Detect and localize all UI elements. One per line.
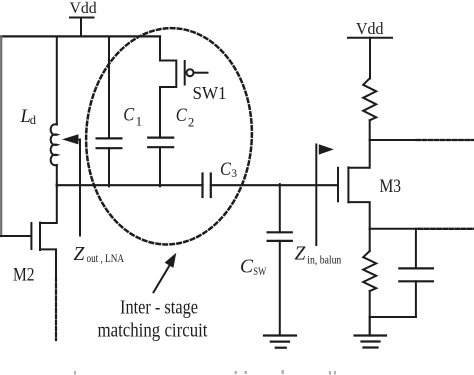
transistor M2 drain lead [40, 184, 57, 223]
ground (under source resistor) [355, 317, 387, 348]
wire: main top rail [1, 35, 160, 37]
wire: source node solid [370, 228, 419, 230]
svg-text:Z: Z [295, 243, 306, 264]
wire: bottom node horizontal [370, 316, 416, 318]
wire: SW1 branch with jogs (channel bar of SW1) [160, 37, 176, 138]
wire: Csw bottom to ground [279, 241, 281, 336]
svg-text:M3: M3 [380, 176, 402, 197]
wire: drop to inductor Ld [56, 37, 58, 125]
svg-text:Vdd: Vdd [356, 19, 384, 38]
wire: Csw branch top [279, 184, 281, 232]
svg-text:3: 3 [231, 168, 237, 180]
wire: C1 bottom to node [108, 148, 110, 186]
svg-text:Vdd: Vdd [70, 0, 97, 17]
resistor (source degeneration) [363, 251, 376, 291]
wire: drain node solid [370, 139, 417, 141]
svg-text:2: 2 [188, 115, 194, 129]
resistor (drain load) [363, 78, 376, 120]
wire: C2 bottom to node [159, 147, 161, 186]
wire: output node horizontal (left of C3) [57, 184, 203, 186]
transistor M3 source lead [348, 202, 369, 229]
transistor M2 gate bar [30, 223, 32, 249]
arrowhead: Zin probe (points right) [319, 144, 334, 154]
arrowhead: Zout probe (points left) [62, 134, 78, 144]
annotation arrow to ellipse [154, 266, 170, 293]
capacitor (source bypass) [399, 268, 433, 281]
wire: Zout probe line [79, 140, 81, 236]
svg-text:matching circuit: matching circuit [98, 319, 208, 341]
transistor M3 drain lead [348, 140, 369, 168]
svg-text:out , LNA: out , LNA [87, 253, 125, 265]
wire: resistor bottom [369, 291, 371, 317]
svg-text:SW: SW [253, 266, 266, 278]
capacitor C3 (series) [203, 174, 211, 198]
svg-text:M2: M2 [13, 265, 35, 286]
transistor M3 gate bar [337, 168, 339, 202]
wire: drain node dashed to edge [417, 139, 474, 141]
wire: bypass cap bottom [415, 281, 417, 317]
capacitor C1 [97, 138, 122, 148]
transistor M2 gate lead [1, 235, 32, 237]
transistor M3 channel bar [347, 167, 349, 202]
wire: node horizontal (right of C3) [211, 184, 337, 186]
svg-text:C: C [176, 106, 188, 126]
transistor SW1 bubble [187, 69, 194, 76]
svg-text:Inter - stage: Inter - stage [120, 297, 198, 319]
Vdd supply symbol (left) [70, 18, 94, 37]
wire: left vertical rail [0, 37, 2, 237]
wire: Zin probe line [315, 145, 317, 246]
svg-text:Z: Z [74, 244, 85, 265]
capacitor C2 [148, 138, 173, 148]
svg-text:1: 1 [136, 115, 142, 129]
svg-text:SW1: SW1 [193, 83, 227, 103]
wire: source to resistor [369, 229, 371, 251]
wire: drop to capacitor C1 [108, 37, 110, 139]
svg-text:d: d [30, 113, 37, 127]
svg-text:C: C [123, 105, 135, 125]
transistor SW1 gate lead [194, 72, 208, 74]
faint cut-off caption marks at bottom [74, 370, 336, 375]
dotted ellipse: inter-stage matching circuit [81, 24, 258, 249]
svg-text:C: C [220, 160, 232, 180]
transistor SW1 gate bar [184, 61, 186, 85]
svg-text:C: C [240, 256, 254, 278]
Vdd supply symbol (right) [348, 38, 392, 79]
wire: dashed source continuation [55, 278, 57, 340]
wire: inductor bottom to node [56, 165, 58, 186]
svg-text:in, balun: in, balun [307, 254, 341, 266]
capacitor Csw [268, 232, 292, 241]
arrowhead: annotation arrow [165, 253, 177, 268]
wire: source node dashed to edge [419, 228, 474, 230]
transistor M2 channel bar [39, 223, 41, 250]
inductor Ld coil [51, 124, 57, 165]
wire: resistor to drain node [369, 120, 371, 140]
transistor M2 source lead [40, 249, 56, 278]
ground (under Csw) [264, 336, 296, 348]
wire: bypass cap branch top [415, 229, 417, 269]
